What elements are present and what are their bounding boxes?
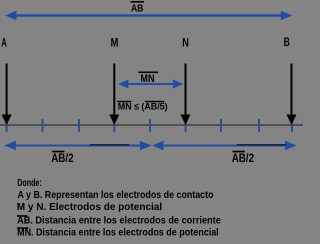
svg-text:A y B. Representan los electro: A y B. Representan los electrodos de con… <box>18 190 214 201</box>
svg-text:AB. Distancia entre los electr: AB. Distancia entre los electrodos de co… <box>17 216 221 227</box>
svg-text:AB/2: AB/2 <box>51 151 74 165</box>
svg-text:MN: MN <box>140 73 154 85</box>
svg-text:MN. Distancia entre los electr: MN. Distancia entre los electrodos de po… <box>17 228 219 239</box>
svg-text:N: N <box>182 36 189 50</box>
svg-text:A: A <box>1 36 7 50</box>
svg-text:Donde:: Donde: <box>17 178 42 189</box>
svg-text:MN ≤ (AB/5): MN ≤ (AB/5) <box>118 101 168 112</box>
svg-text:B: B <box>284 35 290 49</box>
svg-text:AB: AB <box>131 2 144 14</box>
svg-text:M: M <box>111 36 119 50</box>
svg-text:AB/2: AB/2 <box>232 151 255 165</box>
svg-text:M y N. Electrodos de potencial: M y N. Electrodos de potencial <box>17 202 163 213</box>
